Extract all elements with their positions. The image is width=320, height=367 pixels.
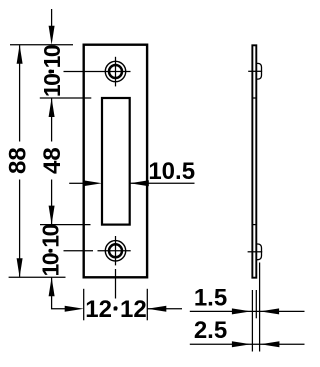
dimension 10.5 right tail underline bbox=[130, 182, 195, 184]
extension line plate left face bbox=[251, 290, 253, 352]
side view top screw boss bbox=[256, 63, 261, 79]
bottom hole centerline horizontal extension bbox=[64, 250, 94, 252]
dimension 48 line bbox=[51, 98, 53, 225]
dimension 2.5 right arrow bbox=[260, 341, 279, 347]
side view bottom boss centerline bbox=[248, 251, 263, 253]
bottom hole centerline extension below plate bbox=[115, 269, 117, 299]
dimension 88 arrow up bbox=[17, 45, 23, 64]
dimension 2.5 left arrow bbox=[232, 341, 251, 347]
dimension 1.5 right arrow bbox=[260, 308, 279, 314]
dimension 10.5 right arrow bbox=[130, 180, 149, 186]
extension line plate right face bbox=[255, 290, 257, 318]
chain arrow up at plate bottom bbox=[49, 277, 55, 296]
chain leader elbow to 12.12 bbox=[52, 277, 66, 309]
side view bottom screw boss bbox=[256, 244, 261, 260]
bottom hole centerline vertical bbox=[115, 236, 117, 265]
dimension 10.5 left arrow bbox=[83, 180, 102, 186]
svg-text:10.5: 10.5 bbox=[148, 158, 195, 185]
chain arrow down at slot bottom bbox=[49, 206, 55, 225]
dot of 12.12 bbox=[114, 306, 118, 310]
dimension 1.5 line bbox=[190, 310, 305, 312]
dimension 88 arrow down bbox=[17, 258, 23, 277]
extension line slot bottom bbox=[40, 224, 91, 226]
latch slot cutout bbox=[102, 98, 130, 225]
chain arrow down at plate top bbox=[49, 26, 55, 45]
side view slot bottom tick bbox=[252, 224, 257, 226]
dimension 12.12 extension line left bbox=[83, 289, 85, 321]
side view plate profile bbox=[252, 45, 256, 277]
dot of top 10.10 bbox=[48, 70, 52, 74]
svg-text:1.5: 1.5 bbox=[194, 284, 227, 311]
dimension 2.5 line bbox=[190, 343, 305, 345]
dot of bottom 10.10 bbox=[48, 249, 52, 253]
bottom screw hole bbox=[105, 241, 125, 261]
dimension 12.12 right arrow bbox=[147, 306, 166, 312]
svg-text:48: 48 bbox=[39, 147, 66, 174]
extension line boss face bbox=[259, 263, 261, 352]
side view slot top tick bbox=[252, 97, 257, 99]
dimension 1.5 left arrow bbox=[232, 308, 251, 314]
chain arrow up at slot top bbox=[49, 98, 55, 117]
dimension 10.5 left tail bbox=[69, 182, 84, 184]
dimension 12.12 left arrow bbox=[65, 306, 84, 312]
dimension 12.12 right tail bbox=[147, 308, 182, 310]
dimension 12.12 extension line right bbox=[146, 289, 148, 321]
extension line plate bottom edge bbox=[9, 276, 66, 278]
chain dimension line top tail bbox=[51, 9, 53, 27]
top screw hole bbox=[105, 61, 125, 81]
svg-text:2.5: 2.5 bbox=[194, 317, 227, 344]
extension line slot top bbox=[40, 97, 92, 99]
strike plate outline front view bbox=[84, 45, 147, 278]
extension line plate top edge bbox=[10, 44, 73, 46]
bottom hole centerline horizontal bbox=[98, 250, 131, 252]
dimension 88 line bbox=[19, 45, 21, 277]
top hole centerline vertical bbox=[115, 57, 117, 87]
top hole centerline horizontal bbox=[64, 71, 131, 73]
svg-text:88: 88 bbox=[5, 147, 32, 174]
side view top boss centerline bbox=[248, 70, 262, 72]
